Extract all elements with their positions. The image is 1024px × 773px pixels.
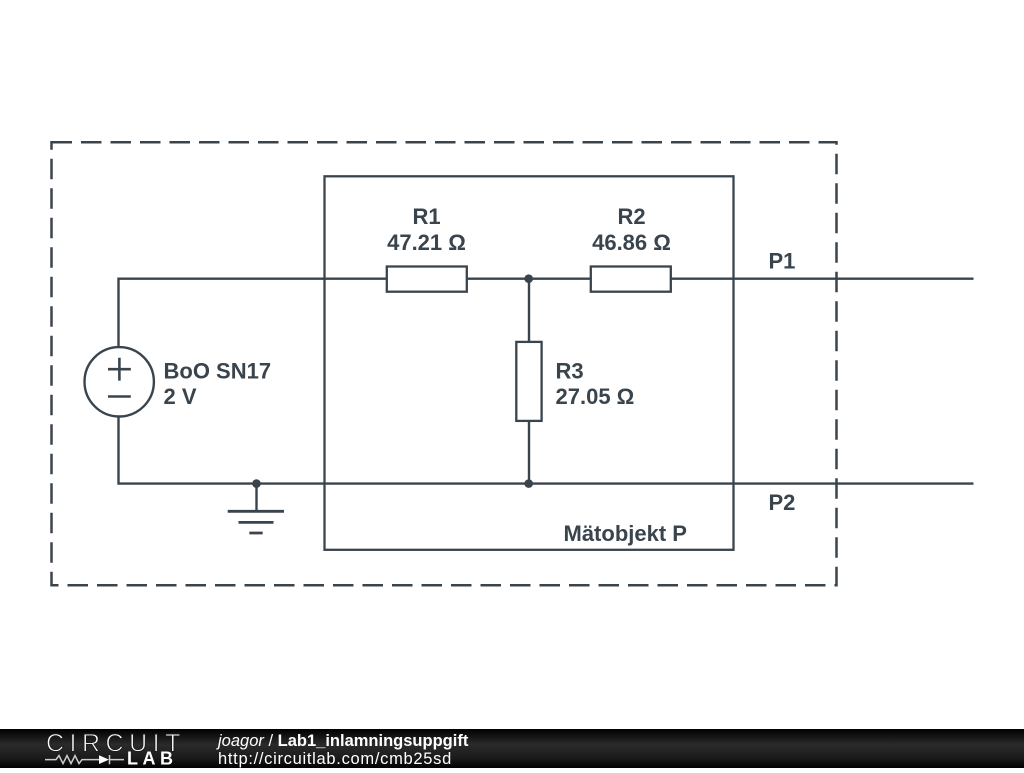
svg-text:27.05 Ω: 27.05 Ω	[556, 384, 635, 409]
svg-text:Mätobjekt P: Mätobjekt P	[564, 521, 687, 546]
svg-text:46.86 Ω: 46.86 Ω	[592, 230, 671, 255]
svg-text:http://circuitlab.com/cmb25sd: http://circuitlab.com/cmb25sd	[218, 750, 452, 768]
svg-text:R3: R3	[556, 358, 584, 383]
svg-text:LAB: LAB	[127, 749, 178, 768]
svg-text:P1: P1	[769, 249, 796, 274]
svg-text:47.21 Ω: 47.21 Ω	[387, 230, 466, 255]
svg-text:P2: P2	[769, 490, 796, 515]
svg-text:BoO SN17: BoO SN17	[164, 358, 272, 383]
svg-text:joagor / Lab1_inlamningsuppgif: joagor / Lab1_inlamningsuppgift	[216, 732, 469, 750]
svg-text:R1: R1	[412, 204, 440, 229]
svg-text:2 V: 2 V	[164, 384, 197, 409]
svg-text:R2: R2	[617, 204, 645, 229]
